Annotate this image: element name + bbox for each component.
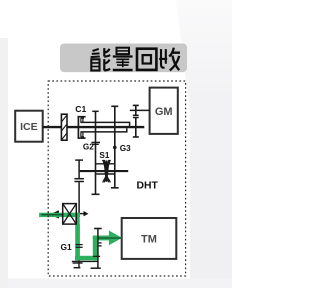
TM shaft stripe over green — [98, 237, 121, 239]
green up leg — [93, 236, 98, 260]
svg-text:G1: G1 — [61, 242, 73, 252]
gear line G2 shaft — [92, 111, 101, 194]
wheel shaft stripe over green — [42, 214, 63, 216]
svg-text:C1: C1 — [75, 104, 86, 114]
glyph 量 — [113, 48, 133, 70]
left half-shaft with arrow — [48, 210, 63, 218]
svg-text:DHT: DHT — [137, 181, 159, 192]
dashed boundary rectangle — [48, 81, 185, 276]
output idler line A — [78, 224, 80, 268]
TM box — [122, 218, 177, 259]
svg-text:S1: S1 — [99, 151, 109, 160]
green wheel-input bar — [39, 213, 80, 217]
bottom gray band — [0, 279, 232, 288]
green bar to TM — [93, 236, 110, 241]
TM gear line B over green — [91, 229, 102, 269]
right half-shaft with arrow — [76, 211, 88, 216]
GM input line — [130, 109, 150, 111]
gear line G3 shaft — [111, 106, 119, 188]
green down leg — [75, 213, 80, 260]
right gray margin wedge — [176, 0, 232, 288]
synchronizer S1 dog rings — [96, 163, 115, 165]
green arrowhead into TM — [109, 231, 122, 246]
differential ring gear line — [78, 182, 80, 216]
torsional damper — [61, 114, 67, 140]
glyph 回 — [137, 49, 156, 70]
svg-text:ICE: ICE — [20, 121, 38, 133]
green bottom bar — [75, 256, 97, 260]
svg-text:G2: G2 — [83, 142, 94, 151]
left gray edge band — [0, 38, 8, 288]
GM gear pair — [133, 105, 139, 137]
svg-text:G3: G3 — [120, 144, 131, 153]
page background — [0, 0, 232, 288]
clutch C1 outer plate — [78, 116, 86, 139]
bottom output shaft line — [72, 245, 99, 268]
dashed border over green bar — [47, 212, 49, 219]
svg-text:TM: TM — [141, 233, 157, 245]
GM box — [150, 88, 178, 134]
ICE box — [15, 111, 43, 142]
hollow shaft upper line — [81, 122, 130, 126]
glyph 收 — [159, 48, 180, 71]
clutch C1 inner plates — [81, 118, 84, 137]
glyph 能 — [91, 48, 111, 70]
synchronizer S1 hub — [102, 160, 111, 181]
banner 能量回收 — [60, 44, 187, 73]
green energy-recovery path — [39, 213, 122, 261]
countershaft — [80, 170, 129, 172]
final drive pinion gear — [74, 160, 84, 181]
hollow shaft lower line — [81, 128, 127, 132]
differential box — [63, 204, 77, 225]
svg-text:GM: GM — [155, 106, 173, 118]
main input shaft — [43, 126, 145, 128]
